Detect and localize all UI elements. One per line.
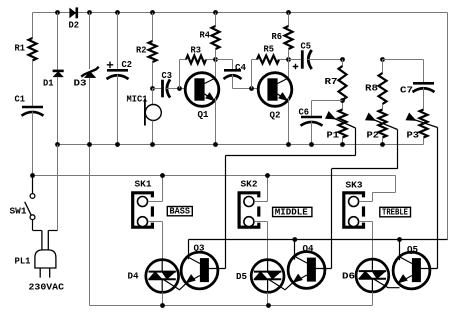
resistor R2 (149, 41, 157, 62)
wiper P3 arrow (406, 113, 416, 120)
wire mains neutral riser (57, 145, 59, 231)
node supply-D1 (55, 10, 60, 15)
microphone MIC1 (145, 105, 161, 121)
svg-text:D5: D5 (236, 271, 247, 282)
node Q1 base (177, 86, 182, 91)
zener diode D3 (81, 67, 99, 77)
svg-text:C4: C4 (235, 62, 246, 73)
node Q5 collector (397, 237, 402, 242)
node D3-ground (87, 142, 92, 147)
svg-text:R2: R2 (136, 45, 147, 56)
capacitor C2 (107, 69, 128, 72)
wire right border down to collector line (447, 13, 449, 240)
svg-text:Q2: Q2 (270, 110, 281, 121)
node Q2 emitter-ground (286, 142, 291, 147)
svg-text:C5: C5 (301, 41, 312, 52)
wire R3 right lead (206, 59, 216, 61)
capacitor C3 (161, 80, 164, 98)
svg-text:R8: R8 (365, 83, 378, 94)
wire Q4 collector riser (294, 240, 296, 260)
svg-text:R1: R1 (15, 43, 26, 54)
label box MIDDLE (273, 207, 312, 216)
node supply-D3 (87, 10, 92, 15)
resistor R1 (29, 38, 37, 61)
svg-text:C6: C6 (299, 107, 310, 118)
node Q1 emitter-ground (213, 142, 218, 147)
wire Q2 emitter riser (288, 98, 290, 145)
svg-text:P2: P2 (367, 130, 380, 141)
wire R5 right lead (279, 59, 289, 61)
wire R2 top lead (152, 13, 154, 42)
wire D1 top lead (57, 13, 59, 72)
wire lamp supply rail y175 (33, 175, 396, 177)
wire P1 wiper route to Q3 base (355, 128, 357, 156)
wiper P2 arrow (366, 113, 376, 120)
wire ground rail y144 (58, 144, 424, 146)
node D5-mains rail (266, 303, 271, 308)
transistor Q2 (258, 73, 292, 107)
node Q1 collector (213, 57, 218, 62)
potentiometer P2 (382, 104, 384, 110)
node SK1-rail175 (160, 173, 165, 178)
wiper P1 arrow (326, 112, 336, 119)
node R7-P1-C6 (340, 98, 345, 103)
node D4-mains rail (160, 303, 165, 308)
label box TREBLE (380, 207, 411, 217)
resistor R7 (342, 60, 344, 67)
capacitor C7 (413, 82, 434, 85)
label box BASS (167, 207, 192, 216)
triac D4 (146, 260, 179, 293)
svg-text:R3: R3 (191, 45, 202, 56)
wire P2 wiper route to Q4 base (397, 130, 399, 169)
wire P2 bottom lead (382, 138, 384, 145)
wire R2 bottom lead (152, 62, 154, 89)
wire C6 bottom lead (311, 121, 313, 144)
node supply-C2 (115, 10, 120, 15)
transistor Q4 (288, 252, 325, 289)
svg-text:D2: D2 (69, 20, 80, 31)
svg-text:D6: D6 (342, 271, 355, 282)
svg-text:TREBLE: TREBLE (382, 207, 408, 218)
capacitor C5 (301, 50, 304, 68)
wire R1 to C1 (32, 61, 34, 108)
wire D6 gate to Q5 emitter (373, 279, 399, 288)
wire C4 top lead (216, 59, 233, 61)
wire SK3 pin1 jog to lamp rail end (359, 201, 373, 203)
svg-text:SK1: SK1 (135, 179, 152, 190)
node Q2 collector (286, 57, 291, 62)
wire D4 gate to Q3 emitter (163, 279, 187, 290)
wire Q1 collector riser (215, 60, 217, 82)
svg-text:C2: C2 (122, 59, 133, 70)
wire SK2 pin2 to D5 (254, 221, 267, 223)
node supply-R2 (150, 10, 155, 15)
wire C2 bottom lead (117, 75, 119, 145)
svg-text:Q4: Q4 (303, 243, 314, 254)
svg-text:P1: P1 (327, 130, 340, 141)
node D1-ground (55, 142, 60, 147)
node R2-C3-MIC (150, 86, 155, 91)
triac D5 (251, 260, 284, 293)
wire C1 to SW1 node (32, 112, 34, 176)
capacitor C4 (224, 69, 241, 72)
wire P1 bottom lead (342, 138, 344, 145)
resistor R6 (285, 26, 293, 49)
svg-text:Q3: Q3 (194, 243, 205, 254)
wire SK1 pin1 to lamp rail (148, 201, 163, 203)
svg-text:C3: C3 (162, 70, 173, 81)
diode D2 (70, 8, 76, 17)
svg-text:SW1: SW1 (10, 206, 27, 217)
wire D3 bottom lead (89, 78, 91, 145)
svg-text:Q5: Q5 (407, 244, 418, 255)
svg-text:D4: D4 (128, 271, 139, 282)
capacitor C6 (301, 116, 322, 119)
wire bottom mains rail (90, 305, 373, 307)
svg-text:PL1: PL1 (15, 256, 31, 267)
node Q2 base (249, 86, 254, 91)
node P1-ground (340, 142, 345, 147)
resistor R4 (212, 26, 220, 49)
svg-text:MIDDLE: MIDDLE (275, 206, 308, 217)
wire C3 to Q1 base (167, 88, 187, 90)
diode D1 (53, 70, 64, 73)
wire collector feed line (189, 239, 448, 241)
svg-text:MIC1: MIC1 (127, 94, 148, 105)
wire Q2 collector riser (288, 60, 290, 82)
svg-text:230VAC: 230VAC (29, 282, 65, 293)
wire C4 to Q2 base (232, 75, 234, 89)
svg-text:R5: R5 (264, 44, 275, 55)
wire R5 left riser (251, 60, 253, 89)
plug PL1 (42, 231, 48, 251)
potentiometer P1 (339, 110, 347, 138)
wire Q1 emitter riser (215, 98, 217, 145)
node C2-ground (115, 142, 120, 147)
node supply-R4 (213, 10, 218, 15)
wire Q5 collector riser (399, 240, 401, 261)
node supply-R6 (286, 10, 291, 15)
resistor R8 (382, 60, 384, 74)
wire SW1 to plug (32, 220, 34, 231)
wire C5 left lead (289, 59, 302, 61)
switch SW1 (32, 176, 34, 194)
wire SK3 pin2 to D6 (359, 221, 373, 223)
potentiometer P3 (423, 88, 425, 110)
wire D3 top lead (89, 13, 91, 70)
node C5-R7-P1 (340, 57, 345, 62)
svg-text:BASS: BASS (170, 206, 191, 217)
connector SK3 (344, 193, 364, 227)
wire C3 left lead (153, 88, 162, 90)
svg-text:SK3: SK3 (346, 180, 363, 191)
node Q4 collector (292, 237, 297, 242)
node C6-ground (309, 142, 314, 147)
svg-text:SK2: SK2 (241, 179, 258, 190)
svg-text:D1: D1 (43, 78, 54, 89)
wire SK1 pin2 to D4 (148, 221, 163, 223)
wire R4 bottom lead (215, 49, 217, 60)
wire D1 bottom lead (57, 77, 59, 145)
svg-text:C7: C7 (400, 85, 413, 96)
node mains-live (30, 173, 35, 178)
wire P3 bottom lead (423, 138, 425, 145)
resistor R5 (257, 56, 279, 64)
svg-text:C1: C1 (15, 94, 26, 105)
svg-text:R7: R7 (325, 76, 338, 87)
wire MIC1 top lead (152, 89, 154, 105)
wire D6 bottom lead (372, 292, 374, 306)
svg-text:R4: R4 (200, 30, 211, 41)
wire P3 wiper route to Q5 base (437, 128, 439, 269)
wire R3 left riser (179, 60, 181, 89)
wire MIC1 bottom lead (152, 121, 154, 145)
wire D5 gate to Q4 emitter (268, 279, 294, 290)
wire top supply rail (33, 12, 448, 14)
connector SK2 (239, 193, 259, 227)
svg-text:R6: R6 (272, 31, 283, 42)
wire R6 top lead (288, 13, 290, 27)
transistor Q3 (181, 252, 218, 289)
wire R4 top lead (215, 13, 217, 27)
wire D5 bottom lead (267, 292, 269, 305)
wire C7 top lead (383, 59, 424, 61)
wire C5 right lead (308, 59, 343, 61)
wire plug right prong to neutral (48, 230, 57, 232)
svg-text:D3: D3 (74, 78, 87, 89)
capacitor C1 (22, 106, 43, 109)
wire Q3 collector riser (188, 240, 190, 260)
transistor Q5 (393, 252, 430, 289)
node P2-ground (380, 142, 385, 147)
node C5line-R8-P2 (380, 57, 385, 62)
node MIC-ground (150, 142, 155, 147)
wire C6 top jog (312, 100, 343, 102)
svg-text:Q1: Q1 (198, 109, 209, 120)
wire D4 bottom lead (162, 292, 164, 305)
transistor Q1 (185, 73, 219, 107)
node SK2-rail175 (265, 173, 270, 178)
connector SK1 (133, 193, 153, 227)
triac D6 (356, 259, 389, 292)
wire R6 bottom lead (288, 49, 290, 60)
wire mains left riser x90 (89, 145, 91, 306)
wire R1 top lead (32, 13, 34, 39)
wire C2 top lead (117, 13, 119, 71)
svg-text:P3: P3 (407, 130, 420, 141)
wire SK2 pin1 to lamp rail (254, 201, 267, 203)
resistor R3 (186, 56, 206, 64)
